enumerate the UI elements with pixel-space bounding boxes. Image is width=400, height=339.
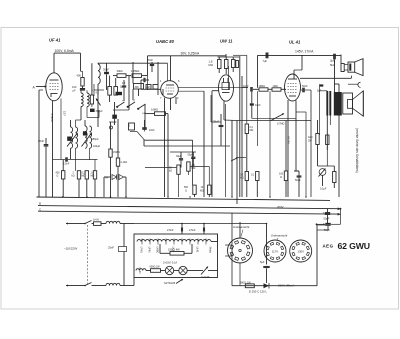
capacitor 50uF lower (316, 208, 342, 232)
wire v4 cathode leg (294, 120, 299, 171)
wire x232 (231, 121, 233, 198)
label bus B (39, 202, 41, 206)
svg-text:7A: 7A (105, 176, 109, 180)
wire psu left vert (225, 245, 232, 256)
svg-text:300µF: 300µF (96, 110, 104, 113)
bus rail top (37, 197, 331, 200)
resistor 2.1k (116, 125, 127, 197)
socket S2 label 117V (272, 249, 278, 253)
annotation 145V 17mA (295, 49, 314, 53)
small boxes grid2 (146, 85, 158, 90)
row box 1M (272, 85, 286, 91)
wire row y87 left (242, 76, 248, 197)
svg-text:Untenansicht: Untenansicht (271, 234, 288, 238)
svg-text:150Ω, 4W: 150Ω, 4W (168, 248, 180, 252)
resistor 1.25k (131, 69, 148, 77)
svg-text:UABC: UABC (156, 247, 159, 254)
wire mid right v (204, 91, 221, 197)
capacitor 100uF (72, 85, 99, 95)
svg-text:(rechte Seite des Schaltbildes: (rechte Seite des Schaltbildes) (355, 128, 359, 173)
wire v2 grid area (147, 56, 149, 90)
bus B arrowhead (338, 208, 341, 216)
svg-text:30kΩ: 30kΩ (117, 69, 123, 73)
wire mid h1 (130, 132, 145, 141)
resistor 1M bottom (200, 167, 211, 198)
svg-text:7µF: 7µF (263, 59, 268, 63)
wire top mid join (113, 76, 129, 125)
tube V2 pin wires (141, 56, 176, 197)
resistor pair 0.1M (251, 172, 259, 198)
label 200V (277, 205, 284, 209)
svg-text:0,4 A: 0,4 A (93, 218, 99, 222)
tube V1 anode plate (50, 79, 59, 81)
svg-text:E 250 C 120 L: E 250 C 120 L (249, 290, 267, 294)
IF transformer T1 primary (71, 120, 73, 159)
label 200V 85mA (278, 283, 294, 287)
bus junction dots (62, 196, 307, 197)
svg-text:145V, 17mA: 145V, 17mA (295, 49, 314, 53)
wire v2 anode right (178, 87, 242, 91)
socket S3 label 130V (297, 249, 304, 253)
wire b arrow node (231, 157, 246, 161)
fuse 0.4A (92, 218, 107, 226)
heater lower coil (136, 269, 146, 271)
wire mid h2 (145, 140, 193, 185)
svg-text:2×19V, 0,1A: 2×19V, 0,1A (163, 261, 177, 265)
tube V3 electrodes (222, 78, 230, 93)
socket base S2 Untenansicht label (271, 234, 288, 241)
svg-text:kΩ: kΩ (169, 170, 172, 173)
svg-text:100V, 6,5mA: 100V, 6,5mA (55, 49, 75, 53)
wire x242 tall (233, 55, 247, 197)
resistor 100ohm (279, 121, 288, 198)
svg-text:16nF: 16nF (149, 129, 155, 132)
svg-text:kΩ: kΩ (72, 175, 75, 178)
capacitor 5uF (260, 260, 270, 283)
tube V4 UL41 envelope (285, 74, 301, 101)
heater box left leg (133, 278, 135, 286)
wire v3 cathode down (224, 119, 237, 122)
svg-text:10nF: 10nF (255, 104, 261, 107)
wire speaker top (300, 55, 351, 91)
wire 100V plate feed (54, 53, 81, 71)
label dial lamps (163, 261, 177, 265)
svg-text:B: B (39, 202, 41, 206)
heater chain box (134, 234, 218, 278)
resistor 0.2M v (245, 55, 253, 171)
capacitor 50uF cath (294, 171, 301, 197)
wire OT to bus (317, 60, 335, 151)
wire switch drop (112, 102, 145, 130)
rectifier diode D1 (264, 283, 270, 289)
mains switch top (84, 221, 91, 225)
svg-text:2,1kΩ: 2,1kΩ (121, 161, 128, 164)
IF T1 tuning arrows (67, 133, 78, 147)
svg-text:MΩ: MΩ (250, 129, 254, 132)
svg-text:Untenansicht: Untenansicht (233, 225, 250, 229)
cluster resistor 50k (169, 162, 195, 174)
socket S1 pins (230, 241, 250, 261)
mains line bottom (66, 284, 85, 286)
socket base S1 Untenansicht label (233, 225, 250, 237)
label tube V3 UW11 (220, 39, 233, 44)
wire x270 (269, 91, 271, 197)
heater chain winding (137, 240, 211, 242)
capacitor 20nF (147, 58, 154, 72)
svg-text:100µF: 100µF (93, 145, 101, 148)
capacitor 25nF top (213, 114, 223, 146)
heater cap 2.5nF b (189, 224, 205, 234)
tube V1 cathode (51, 94, 58, 98)
wire x225 x228 (226, 66, 229, 197)
resistor row R5 0.2M (82, 148, 89, 197)
socket S2 pins (266, 242, 283, 259)
svg-text:UL 41: UL 41 (289, 40, 301, 45)
socket S3 pins (292, 242, 309, 259)
cluster cap 30uF (176, 152, 183, 168)
tube V1 UF41 envelope (46, 73, 62, 101)
wire mid h3 (144, 140, 230, 147)
speaker LS2 cone (353, 91, 364, 116)
svg-text:Skala: Skala (209, 247, 212, 254)
svg-text:Ω: Ω (185, 189, 187, 192)
capacitor 2.5nF (53, 157, 98, 165)
svg-text:2W: 2W (308, 140, 312, 143)
mains choke bottom (106, 283, 120, 285)
svg-text:50µF: 50µF (295, 179, 301, 182)
resistor 150ohm 4W (160, 244, 192, 255)
mains wire bottom (92, 285, 135, 287)
label 2uF (330, 59, 335, 68)
poti heater (187, 267, 217, 279)
svg-text:~110/220V: ~110/220V (64, 247, 78, 251)
svg-text:50µF: 50µF (188, 153, 194, 156)
capacitor grid 2M (141, 78, 149, 82)
svg-text:150µF: 150µF (92, 138, 100, 141)
tube V2 UABC80 envelope (161, 81, 179, 99)
svg-text:25nF: 25nF (108, 246, 114, 250)
label mains voltage (64, 247, 78, 251)
title AEG (323, 243, 334, 248)
wire 30V line (148, 55, 227, 57)
wire mid left (94, 84, 104, 96)
capacitor 25nF mains (108, 246, 127, 252)
svg-text:0,1µF: 0,1µF (320, 188, 327, 191)
annotation 100V 6.5mA (55, 49, 75, 53)
wire y120 rail (237, 90, 311, 197)
tube V3 bottom pin wire (212, 91, 224, 197)
resistor 680ohm (240, 281, 254, 287)
tube V4 bottom pin wires (288, 100, 296, 197)
mains switch bottom (84, 283, 91, 287)
capacitor 30uF (103, 63, 109, 90)
label 300uF (109, 120, 117, 129)
capacitor 7uF on 145V line (263, 53, 268, 63)
resistor 1k2W b (326, 135, 329, 166)
svg-text:1,25kΩ: 1,25kΩ (131, 69, 139, 73)
resistor near jack (333, 166, 336, 188)
resistor row R6 1.6M (90, 148, 97, 197)
IF T2 tuning arrows (82, 133, 92, 147)
wire mains link (124, 223, 267, 286)
label 150uF (92, 138, 100, 141)
svg-text:20nF: 20nF (147, 58, 153, 62)
capacitor 50uF (122, 80, 126, 101)
oscillator coil (98, 64, 100, 127)
IF transformer T2 secondary (83, 126, 92, 148)
speaker LS1 cone (355, 59, 363, 76)
component box 300uF (134, 84, 144, 90)
row box 10M (259, 85, 273, 91)
capacitor 25nF input (38, 138, 48, 197)
tube V4 grid pin wire (285, 88, 286, 90)
tube V3 top pin wire (225, 54, 227, 57)
heater cap 2.5nF a (167, 224, 183, 234)
trimmer cap block b (114, 78, 125, 95)
wire left border (39, 90, 43, 197)
svg-text:UF 41: UF 41 (49, 38, 61, 43)
annotation 30V 0.25mA (181, 51, 201, 55)
svg-text:15MΩ: 15MΩ (113, 151, 120, 154)
tube V1 anode pin wire (53, 53, 55, 73)
resistor 500ohm (184, 185, 196, 197)
title 62 GWU (338, 241, 370, 251)
socket base S1 circle (228, 222, 253, 286)
svg-text:2×10 PL: 2×10 PL (201, 276, 211, 279)
svg-text:2,5nF: 2,5nF (167, 228, 174, 232)
wire 145V anode line (258, 54, 342, 56)
socket base S2 circle (264, 240, 286, 262)
switch link dashed (87, 225, 89, 284)
svg-text:2,5nF: 2,5nF (189, 228, 196, 232)
svg-text:MΩ: MΩ (91, 175, 95, 178)
svg-text:UF41: UF41 (148, 247, 151, 254)
potentiometer 0.7M (252, 113, 296, 125)
svg-text:0,7MΩ: 0,7MΩ (277, 123, 285, 126)
svg-text:6,5mA: 6,5mA (50, 114, 54, 122)
tube V4 top pin wire (294, 55, 302, 74)
antenna coil pair (76, 90, 100, 127)
resistor speaker feed (341, 64, 344, 72)
wire osc top (98, 62, 168, 64)
label tube V4 UL41 (289, 40, 301, 45)
svg-text:UY41: UY41 (140, 247, 143, 254)
label tube V1 UF41 (49, 38, 61, 43)
potentiometer wiper (96, 99, 101, 106)
resistor pair 0.2M (240, 172, 249, 198)
margin note rechte Seite (355, 128, 359, 173)
speaker LS1 driver (344, 62, 355, 72)
wire psu top (134, 223, 267, 225)
wire x306 (296, 112, 306, 197)
svg-text:Ω: Ω (280, 176, 282, 179)
resistor row R4 2k (72, 148, 81, 197)
socket base S3 circle (290, 240, 312, 262)
svg-text:UABC 80: UABC 80 (156, 39, 175, 44)
svg-text:100: 100 (72, 85, 77, 89)
svg-text:Uf 12V: Uf 12V (287, 136, 291, 144)
resistor 15M (109, 122, 120, 197)
svg-text:AEG: AEG (323, 243, 334, 248)
svg-text:MΩ: MΩ (200, 189, 204, 192)
tube V2 pin numbers (160, 79, 180, 100)
resistor row R3 400 (56, 160, 65, 198)
mains line top (66, 222, 85, 224)
svg-text:2,5nF: 2,5nF (63, 163, 70, 166)
component 16nF (142, 120, 155, 132)
wire cluster v2 (133, 62, 163, 100)
svg-text:Ω: Ω (57, 175, 59, 178)
cluster cap 50uF (188, 152, 210, 167)
wire if bottom (52, 120, 54, 197)
resistor R2 4.7k (90, 63, 93, 107)
svg-text:UL 41: UL 41 (138, 267, 141, 274)
label 6.5mA vertical (50, 111, 66, 122)
wire psu right vert (266, 224, 268, 265)
dial lamp La2 (174, 266, 188, 274)
svg-text:130V: 130V (297, 249, 304, 253)
component MO box (129, 123, 135, 130)
connector arc (348, 82, 361, 87)
mains choke top (106, 221, 134, 223)
label UY41 vert (138, 267, 141, 274)
tube V3 UW11 envelope (219, 75, 234, 101)
svg-text:UL41: UL41 (196, 247, 199, 254)
row caps resistors y89 10nF (243, 85, 259, 92)
resistor 600ohm (146, 266, 165, 273)
capacitor 300uF osc (90, 109, 103, 113)
svg-text:300: 300 (135, 86, 140, 89)
svg-text:MΩ: MΩ (192, 167, 196, 170)
IF transformer T1 secondary (67, 127, 77, 148)
svg-text:MΩ: MΩ (240, 177, 244, 180)
wire V3 anode drop (225, 56, 227, 57)
label 100uF b (93, 145, 101, 148)
psu bottom rail (232, 214, 317, 286)
svg-text:2M: 2M (147, 87, 150, 89)
svg-text:µF: µF (73, 88, 76, 92)
capacitor 50uF upper (323, 209, 331, 221)
pickup jack TA (319, 169, 326, 187)
resistor 30k (113, 69, 131, 77)
svg-text:50µF: 50µF (324, 217, 330, 221)
svg-text:117V: 117V (272, 249, 278, 253)
svg-text:5µF: 5µF (260, 260, 265, 264)
resistor 1k2W (308, 120, 319, 166)
antenna input arrow A (33, 85, 47, 89)
svg-text:200V: 200V (277, 205, 284, 209)
wire right edge x339 (318, 84, 340, 197)
svg-text:25nF: 25nF (213, 120, 220, 124)
svg-text:62 GWU: 62 GWU (338, 241, 370, 251)
tube V4 cathode (289, 95, 296, 97)
row cap 50nF (301, 85, 311, 92)
label bus C (39, 207, 42, 211)
capacitor 10nF2 (250, 92, 261, 119)
resistor R1 400 (77, 71, 85, 88)
label 0.1uF (320, 188, 327, 191)
svg-text:MΩ: MΩ (209, 63, 213, 67)
svg-text:UW 11: UW 11 (220, 39, 233, 44)
tube V2 electrodes (166, 85, 175, 94)
dial lamp La1 (165, 266, 173, 274)
svg-text:5µF: 5µF (317, 90, 322, 93)
wire psu top right (317, 224, 327, 226)
cluster wires (145, 114, 196, 197)
band switch S1 (116, 101, 146, 116)
svg-text:16MΩ: 16MΩ (151, 108, 158, 112)
capacitor 2uF (334, 54, 335, 63)
svg-text:600Ω,1W: 600Ω,1W (150, 266, 161, 269)
bus C (38, 211, 338, 214)
wire x237b (241, 76, 243, 87)
IF transformer T2 primary (85, 120, 87, 171)
tube V4 anode plate (288, 75, 297, 80)
wire psu right edge (316, 225, 318, 286)
resistor bank above V3 (218, 57, 240, 74)
svg-text:34/70/225: 34/70/225 (164, 282, 176, 285)
speaker LS2 driver (343, 93, 353, 114)
output transformer OT windings (327, 91, 342, 116)
svg-text:25nF: 25nF (38, 139, 44, 143)
wiper arrow bottom (164, 279, 183, 285)
svg-text:30V, 0,25mA: 30V, 0,25mA (181, 51, 201, 55)
trimmer cap block a (108, 76, 112, 102)
diode pair 7A (104, 175, 126, 198)
tube V4 grid dashes (288, 84, 298, 93)
heater tap ticks (142, 239, 206, 245)
socket S1 center (239, 249, 241, 251)
bus B (38, 206, 338, 209)
wire heater right (211, 234, 218, 242)
svg-text:400: 400 (77, 74, 82, 78)
tube V1 cathode pin wire (53, 99, 62, 198)
wire x262 (257, 55, 259, 146)
label 12V vertical (287, 136, 291, 144)
svg-text:157: 157 (63, 111, 67, 116)
tube V1 grid dashes (50, 84, 60, 90)
label tube V2 UABC80 (156, 39, 175, 44)
wire x237 (236, 121, 238, 205)
heater tube labels (140, 247, 212, 254)
label rectifier type (249, 290, 267, 294)
resistor 1.8M label (209, 60, 213, 68)
resistor 16M (145, 108, 168, 116)
